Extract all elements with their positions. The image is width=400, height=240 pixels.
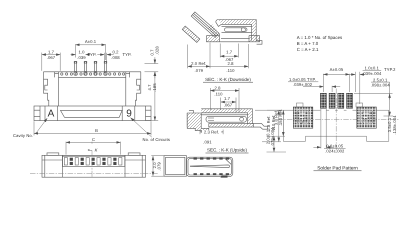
svg-text:2.3 Ref.: 2.3 Ref. [204, 129, 219, 134]
svg-text:2.8: 2.8 [227, 61, 234, 66]
svg-text:SEC. : K-K (Downside): SEC. : K-K (Downside) [205, 77, 251, 82]
svg-text:.150 Ref.: .150 Ref. [278, 109, 283, 127]
bottom view cavity cells [64, 158, 122, 165]
svg-text:.028: .028 [154, 46, 159, 55]
svg-text:.067: .067 [224, 102, 233, 107]
sec downside dim 2.0 ref line [188, 65, 210, 67]
front view terminal row circles [61, 73, 125, 75]
dim 4.7 line [154, 72, 156, 120]
spp left dim 2.0 line [273, 136, 275, 152]
svg-text:.091: .091 [203, 140, 212, 145]
sec upside roof hatch [201, 109, 252, 113]
solder pad left fitting nail pad [293, 107, 313, 128]
dim A±0.1 line [76, 44, 106, 46]
spp dim 0.6 ext lines [320, 109, 322, 149]
centerlines [30, 89, 400, 178]
svg-text:.079±.004: .079±.004 [270, 127, 275, 147]
sec upside dim 2.3 ext lines [199, 130, 201, 135]
dim A±0.1 ext lines [75, 44, 77, 57]
svg-text:B: B [95, 128, 98, 133]
front view terminal row lines [59, 76, 126, 78]
spp left dim ext lines [267, 135, 286, 137]
sec downside slot and contact [222, 27, 252, 33]
solder pad right fitting nail pad [357, 107, 377, 128]
sec downside chain ext lines [187, 45, 189, 69]
fitting nail contour right [361, 110, 373, 124]
svg-text:A: A [48, 109, 55, 120]
svg-text:1.0: 1.0 [78, 49, 85, 54]
bottom view outline [42, 155, 146, 177]
svg-text:C = A + 2.1: C = A + 2.1 [297, 47, 319, 52]
sec upside dim text 2.3 ref [202, 129, 222, 134]
phantom nail tab left [297, 103, 304, 107]
sec upside bottom wall hatch [209, 124, 254, 128]
svg-text:TYP.: TYP. [88, 52, 97, 57]
svg-text:1.0±0.1: 1.0±0.1 [365, 66, 380, 71]
svg-text:2.0 Ref.: 2.0 Ref. [191, 61, 206, 66]
sec upside dim 2.8 line [210, 90, 239, 92]
spp dim 0.6 fraction bar [324, 148, 346, 150]
svg-text:.110: .110 [214, 91, 223, 96]
solder pad signal pad 1 [320, 93, 326, 108]
side view dark marks bottom rail [194, 173, 197, 175]
phantom connector outline [283, 110, 389, 141]
dim 4.7 ext line [146, 120, 158, 122]
svg-text:C: C [92, 137, 95, 142]
leader no of circuits [131, 118, 152, 138]
svg-text:.110: .110 [226, 68, 235, 73]
svg-text:.039±.002: .039±.002 [293, 82, 313, 87]
svg-text:TYP.2: TYP.2 [384, 67, 396, 72]
side view inner outline [188, 159, 231, 175]
dim 1.7 front view line [42, 54, 60, 56]
sec downside dim 1.7 line [220, 55, 238, 57]
svg-text:K: K [95, 147, 98, 152]
bottom view horizontal centerline [30, 173, 158, 175]
svg-text:1.7: 1.7 [48, 49, 55, 54]
solder pad signal pad 4 [347, 93, 353, 108]
spp 2.5 bottom ext line [384, 115, 394, 117]
leader cavity no [36, 118, 47, 133]
spp dim 2.5 fraction bar [371, 81, 390, 83]
dim 1.7 front view ext lines [41, 53, 43, 71]
svg-text:.079: .079 [195, 68, 204, 73]
sec upside right dim line [278, 110, 280, 141]
svg-text:0.2: 0.2 [112, 49, 119, 54]
dim 1.0 TYP arrows [71, 54, 76, 56]
dim 0.7 arrows [154, 57, 156, 63]
svg-text:9: 9 [126, 109, 132, 120]
sec downside dim 1.7 ext lines [219, 44, 221, 58]
spp pad top ext line [354, 92, 393, 94]
spp left dim 3.0 line [282, 110, 284, 136]
spp dim 2.5 vertical line [389, 82, 391, 116]
side view solder foot [221, 176, 228, 178]
front view left end block [44, 72, 59, 106]
sec upside right dim ext lines [255, 109, 281, 111]
svg-text:.024±.002: .024±.002 [325, 149, 345, 154]
solder pad vertical centerline [335, 89, 337, 153]
sec upside dim 1.7 ext lines [220, 98, 222, 111]
svg-text:.067: .067 [47, 55, 56, 60]
svg-text:No. of Circuits: No. of Circuits [143, 137, 171, 142]
spp dim 1.0±0.1 ext lines [354, 72, 356, 92]
svg-text:1.7: 1.7 [226, 50, 233, 55]
sec upside dim 2.8 ext lines [209, 88, 211, 110]
sec upside left block hatch [187, 113, 209, 131]
sec downside dim 2.8 line [210, 65, 248, 67]
svg-text:Solder Pad Pattern: Solder Pad Pattern [317, 165, 358, 171]
svg-text:.039±.004: .039±.004 [362, 71, 382, 76]
solder pad signal pad 3 [338, 93, 344, 108]
solder pad pattern [293, 93, 376, 128]
spp dim 1.0±0.1 arrows [350, 74, 356, 76]
sec downside lower finger hatch [182, 26, 200, 42]
sec upside contact [201, 115, 247, 122]
front view pin 3 [94, 62, 97, 76]
svg-text:2.8: 2.8 [214, 86, 221, 91]
sec downside cable tip hatch [208, 24, 219, 38]
svg-text:.098±.004: .098±.004 [371, 82, 391, 87]
phantom nail tab right [356, 103, 363, 107]
front view pin 4 [104, 62, 107, 76]
bottom view / section K vertical centerline [91, 150, 93, 177]
sec upside roof [201, 109, 252, 124]
spp dim 0.6 arrows [313, 146, 321, 148]
side view main outline [187, 157, 233, 176]
front view pin 1 [74, 62, 77, 76]
sec downside base hatch right [249, 36, 260, 42]
sec downside ffc cable [182, 12, 219, 43]
svg-text:.008: .008 [111, 55, 120, 60]
sec upside dim 2.3 line [200, 131, 223, 133]
svg-text:.079: .079 [157, 162, 162, 171]
sec upside right wall hatch [248, 113, 253, 124]
solder pad horizontal centerline [278, 119, 400, 121]
dimension lines and extension lines [34, 43, 393, 177]
sec upside left hatched block [187, 110, 209, 130]
svg-text:A±0.1: A±0.1 [85, 39, 97, 44]
front view right end block [126, 72, 141, 106]
spp dim A±0.05 ext lines [322, 74, 324, 92]
svg-text:1.7: 1.7 [224, 96, 231, 101]
side view dark marks top rail [194, 158, 230, 178]
spp dim 1.0 typ fraction bar [288, 81, 318, 83]
front view pin 2 [84, 62, 87, 76]
section K mark [88, 149, 92, 151]
svg-text:.185: .185 [152, 83, 157, 92]
dim B line [34, 132, 151, 134]
side view dim 2.0 line [152, 156, 154, 176]
svg-text:Cavity No.: Cavity No. [13, 133, 33, 138]
solder pad signal pad 2 [329, 93, 335, 108]
svg-text:B = A + 7.0: B = A + 7.0 [297, 41, 319, 46]
side view left block [164, 156, 187, 177]
spp dim A±0.05 line [323, 73, 349, 75]
dim C line [66, 141, 120, 143]
side view slot [190, 159, 231, 168]
front view body top edge [44, 71, 142, 73]
sec downside base bar [207, 34, 263, 45]
dim 0.7 ext lines [145, 63, 159, 65]
bottom view cavity strip [62, 156, 125, 166]
svg-text:TYP.: TYP. [123, 52, 132, 57]
sec downside base hatch left [207, 36, 220, 42]
bottom view top tabs [47, 153, 59, 155]
svg-text:SEC. : K-K (Upside): SEC. : K-K (Upside) [207, 148, 248, 153]
dim B ext lines [33, 121, 35, 135]
svg-text:.138±.004: .138±.004 [392, 115, 397, 135]
svg-text:A±0.05: A±0.05 [330, 67, 344, 72]
fitting nail contour left [297, 110, 309, 124]
sec upside solder tail [253, 124, 267, 130]
svg-text:A = 1.0 * No. of Spaces: A = 1.0 * No. of Spaces [297, 35, 343, 40]
sec upside dim 1.7 line [221, 101, 236, 103]
dim C ext lines [65, 142, 67, 155]
dim 0.2 ext+arrows [103, 53, 105, 63]
sec downside right wall hatch [252, 24, 257, 40]
hatching fills [182, 20, 259, 131]
front view actuator channel [60, 111, 123, 118]
sec downside body roof [216, 20, 256, 41]
svg-text:.039: .039 [77, 55, 86, 60]
sec downside roof hatch [218, 20, 256, 25]
spp dim 1.0 typ arrows [303, 86, 323, 88]
side view dim 2.0 ext lines [151, 155, 164, 157]
sec upside bottom wall [209, 124, 254, 128]
front view base [34, 106, 151, 121]
